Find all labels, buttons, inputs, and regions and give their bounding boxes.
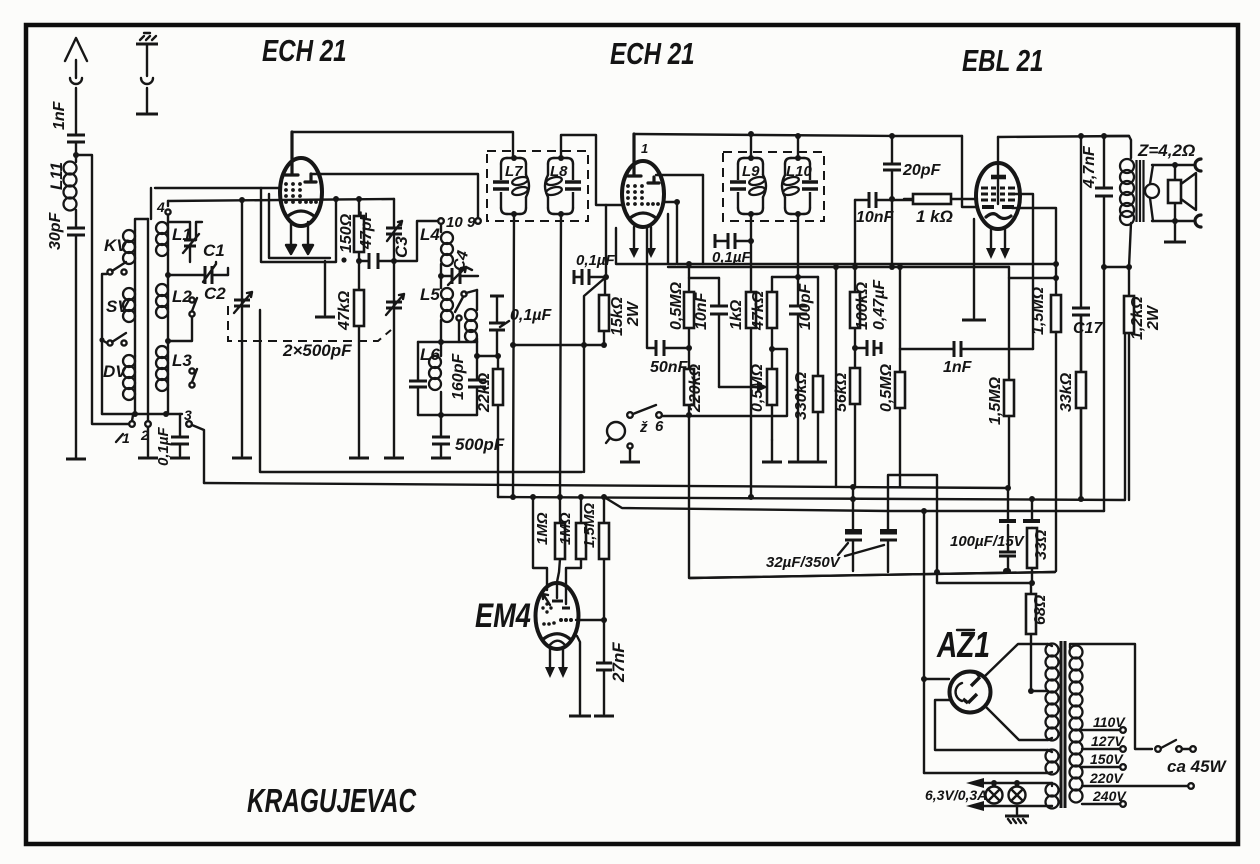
switch contact L2 bbox=[168, 297, 197, 341]
wire EBL plate bbox=[1012, 208, 1056, 295]
svg-text:56kΩ: 56kΩ bbox=[833, 372, 850, 412]
capacitor 27nF bbox=[596, 620, 628, 714]
svg-text:0,1µF: 0,1µF bbox=[576, 252, 615, 269]
power transformer HV winding bbox=[1046, 644, 1059, 741]
capacitor 1nF bbox=[900, 341, 1033, 376]
bus ground lower bbox=[690, 572, 1055, 578]
wire long loop down bbox=[689, 415, 1055, 578]
svg-text:1,2kΩ: 1,2kΩ bbox=[1129, 296, 1146, 340]
bus second lower bbox=[937, 582, 1032, 584]
speaker bbox=[1152, 159, 1201, 227]
svg-text:ž: ž bbox=[639, 419, 648, 436]
svg-text:L7: L7 bbox=[505, 163, 523, 180]
resistor 47kΩ (IF) bbox=[750, 277, 777, 369]
svg-text:1: 1 bbox=[641, 141, 648, 156]
svg-text:150Ω: 150Ω bbox=[338, 213, 355, 253]
ground (C3 line) bbox=[384, 457, 404, 460]
wire L7 bottom down to bus bbox=[513, 214, 514, 497]
wire 20pF node down bbox=[891, 199, 893, 267]
coil L11 bbox=[47, 155, 77, 227]
svg-text:240V: 240V bbox=[1092, 788, 1127, 804]
svg-text:1 kΩ: 1 kΩ bbox=[916, 207, 953, 226]
svg-text:C1: C1 bbox=[203, 241, 225, 260]
resistor 47kΩ bbox=[336, 261, 364, 456]
svg-text:10nF: 10nF bbox=[856, 209, 895, 226]
wire AZ1 anode top bbox=[985, 644, 1048, 676]
wire triode anode tube2 bbox=[656, 174, 703, 176]
tube EBL21 bbox=[976, 137, 1020, 229]
IF transformer dashed box L7 L8 bbox=[487, 151, 588, 221]
wire mid node bbox=[719, 386, 758, 388]
capacitor 0,1µF (AGC to 15k) bbox=[574, 205, 615, 472]
resistor 33kΩ bbox=[1058, 315, 1086, 497]
bus B+ upper bbox=[604, 497, 1104, 511]
trimmer C3 bbox=[386, 199, 411, 456]
resistor 1MΩ #1 bbox=[534, 497, 565, 598]
ground (100pF) bbox=[788, 461, 808, 464]
node L2/L3 junction bbox=[165, 338, 171, 344]
capacitor 0,1µF (osc pad) bbox=[489, 296, 552, 356]
svg-text:KRAGUJEVAC: KRAGUJEVAC bbox=[247, 784, 417, 820]
pin 1 bbox=[116, 415, 135, 446]
svg-text:2W: 2W bbox=[1145, 304, 1162, 331]
switch contact SV/DV bbox=[99, 333, 126, 414]
trimmer C2 bbox=[168, 262, 228, 303]
svg-text:68Ω: 68Ω bbox=[1032, 594, 1049, 625]
svg-text:27nF: 27nF bbox=[609, 642, 628, 683]
wire AVC line bbox=[513, 344, 604, 346]
capacitor 160pF bbox=[450, 353, 486, 415]
node 47pF/C3 bbox=[391, 258, 397, 264]
coil L4 bbox=[420, 224, 453, 276]
wire 4,7nF to transformer bbox=[1104, 266, 1129, 268]
wire L9 bottom down bbox=[750, 214, 752, 292]
svg-text:C3: C3 bbox=[392, 236, 411, 258]
svg-text:0,5MΩ: 0,5MΩ bbox=[749, 363, 766, 412]
wire grid line tube1 bbox=[168, 199, 394, 201]
svg-text:110V: 110V bbox=[1093, 714, 1126, 730]
capacitor 0,47µF bbox=[852, 279, 888, 356]
svg-text:1MΩ: 1MΩ bbox=[534, 512, 551, 545]
IF transformer dashed box L9 L10 bbox=[723, 152, 824, 221]
pin 3 bbox=[184, 407, 204, 483]
pin 10 bbox=[438, 214, 463, 231]
capacitor 50nF bbox=[647, 226, 689, 376]
tap 110V bbox=[1082, 714, 1126, 733]
capacitor 0,1µF (IF bypass) bbox=[712, 233, 754, 266]
svg-text:0,47µF: 0,47µF bbox=[871, 279, 888, 330]
svg-text:100kΩ: 100kΩ bbox=[854, 281, 871, 330]
resistor 0,5MΩ (2nd) bbox=[749, 363, 777, 440]
coil feedback bbox=[465, 290, 477, 342]
svg-text:1MΩ: 1MΩ bbox=[557, 512, 574, 545]
wire AF line bbox=[677, 202, 703, 264]
resistor 0,5MΩ (IF) bbox=[668, 261, 694, 348]
svg-text:0,1µF: 0,1µF bbox=[155, 427, 172, 466]
svg-text:100µF/15V: 100µF/15V bbox=[950, 533, 1026, 550]
trimmer C4 bbox=[441, 249, 478, 285]
power transformer primary bbox=[1070, 644, 1153, 803]
capacitor 10nF (AF) bbox=[855, 192, 913, 226]
svg-text:22kΩ: 22kΩ bbox=[476, 372, 493, 413]
svg-text:150V: 150V bbox=[1090, 751, 1124, 767]
coil L8 cell bbox=[545, 155, 581, 217]
svg-text:EM4: EM4 bbox=[475, 596, 531, 635]
transformer core (power) bbox=[1061, 641, 1065, 808]
wire avc return bbox=[835, 267, 837, 487]
coil L1 cell bbox=[156, 199, 192, 275]
svg-text:6,3V/0,3A: 6,3V/0,3A bbox=[925, 787, 987, 803]
capacitor 500pF bbox=[432, 415, 505, 456]
svg-text:47pF: 47pF bbox=[358, 210, 375, 250]
resistor 22kΩ bbox=[476, 356, 503, 497]
wire heptode anode tube2 bbox=[664, 201, 677, 203]
wire C3 node to pin10 bbox=[394, 221, 438, 261]
wire AZ1 heater return bbox=[935, 700, 1048, 750]
ground (heater) bbox=[1005, 806, 1029, 823]
coil L10 cell bbox=[782, 155, 818, 217]
pickup jack circle bbox=[606, 422, 625, 443]
label AZ1 bbox=[936, 625, 990, 665]
svg-text:47kΩ: 47kΩ bbox=[750, 290, 767, 331]
capacitor 32µF/350V #1 bbox=[845, 484, 862, 571]
wire AZ1 left pin bbox=[924, 678, 949, 680]
wire tube2 top to B+ bbox=[634, 134, 962, 136]
wire L8 top to tube2 grid bbox=[561, 135, 623, 205]
coil DV bbox=[103, 355, 135, 414]
coil L2 bbox=[156, 275, 192, 341]
switch contact KV/SV bbox=[102, 262, 127, 340]
svg-text:L2: L2 bbox=[172, 287, 192, 306]
variable capacitor 2x500pF section1 bbox=[234, 200, 252, 456]
node bus dots bbox=[510, 494, 516, 500]
wire EM4 target bbox=[576, 619, 604, 621]
resistor 68Ω bbox=[1026, 583, 1049, 691]
svg-text:L4: L4 bbox=[420, 225, 440, 244]
switch contact L3 bbox=[189, 368, 197, 387]
resistor 150Ω bbox=[338, 199, 364, 261]
wire L3 bottom bbox=[135, 413, 182, 415]
wire 68 to center tap bbox=[1031, 690, 1048, 692]
svg-text:2W: 2W bbox=[625, 300, 642, 327]
svg-text:20pF: 20pF bbox=[902, 162, 942, 179]
switch Z6 bbox=[627, 349, 787, 436]
capacitor 1nF bbox=[51, 100, 85, 154]
resistor 1,2kΩ 2W bbox=[1124, 267, 1162, 500]
pin 9 bbox=[467, 214, 481, 231]
node 15k bottom bbox=[601, 342, 607, 348]
svg-text:1nF: 1nF bbox=[943, 359, 973, 376]
svg-text:1,5MΩ: 1,5MΩ bbox=[581, 503, 598, 548]
output transformer primary bbox=[1104, 136, 1134, 267]
coil L5 bbox=[420, 276, 453, 342]
wire AZ1 anode bottom bbox=[985, 706, 1048, 740]
ink mark bbox=[341, 257, 346, 262]
resistor 1,5MΩ (EM4) bbox=[581, 497, 609, 620]
svg-text:33Ω: 33Ω bbox=[1033, 529, 1050, 560]
svg-text:EBL 21: EBL 21 bbox=[962, 43, 1043, 78]
wire step bbox=[888, 475, 937, 583]
cathode arrows tube2 bbox=[629, 227, 656, 258]
svg-text:1,5MΩ: 1,5MΩ bbox=[987, 376, 1004, 425]
svg-text:220kΩ: 220kΩ bbox=[687, 363, 704, 413]
resistor 15kΩ 2W bbox=[599, 277, 642, 345]
capacitor 20pF bbox=[883, 133, 942, 199]
capacitor 30pF bbox=[47, 211, 86, 459]
node 150 bottom bbox=[356, 258, 362, 264]
pin 2 bbox=[140, 219, 151, 443]
node L4/C4 bbox=[438, 273, 444, 279]
ground (speaker) bbox=[1164, 221, 1186, 242]
svg-text:L5: L5 bbox=[420, 285, 440, 304]
coil L3 bbox=[156, 341, 192, 414]
capacitor 4,7nF bbox=[1081, 133, 1113, 267]
band switch bank rectangle bbox=[135, 188, 151, 230]
svg-text:Z=4,2Ω: Z=4,2Ω bbox=[1137, 141, 1195, 160]
label 32µF/350V bbox=[766, 543, 884, 571]
svg-text:10nF: 10nF bbox=[693, 291, 710, 330]
tap 150V bbox=[1082, 751, 1126, 770]
wire L6 bottom bbox=[418, 414, 477, 416]
wire L8 bottom to AVC bus bbox=[560, 214, 561, 497]
svg-text:1nF: 1nF bbox=[51, 100, 68, 130]
svg-text:ECH 21: ECH 21 bbox=[262, 33, 347, 68]
svg-text:30pF: 30pF bbox=[47, 211, 64, 250]
svg-text:160pF: 160pF bbox=[450, 353, 467, 400]
resistor 1kΩ bbox=[728, 292, 756, 497]
wire EM4 grid feed bbox=[533, 497, 547, 590]
svg-text:15kΩ: 15kΩ bbox=[609, 296, 626, 336]
tap 240V bbox=[1082, 788, 1127, 807]
tap 220V bbox=[1082, 770, 1194, 789]
svg-text:4: 4 bbox=[156, 199, 165, 215]
variable capacitor 2x500pF section2 bbox=[386, 294, 404, 315]
svg-text:1,5MΩ: 1,5MΩ bbox=[1030, 286, 1047, 335]
node grid junctions bbox=[239, 197, 245, 203]
svg-text:2×500pF: 2×500pF bbox=[282, 341, 352, 360]
svg-text:6: 6 bbox=[655, 418, 664, 435]
coil SV bbox=[106, 288, 135, 356]
ground (47k) bbox=[349, 457, 369, 460]
resistor 1kΩ (grid stopper) bbox=[904, 194, 977, 226]
power transformer 6,3V winding bbox=[1046, 783, 1059, 809]
svg-text:33kΩ: 33kΩ bbox=[1058, 372, 1075, 412]
svg-text:ECH 21: ECH 21 bbox=[610, 36, 695, 71]
svg-text:L9: L9 bbox=[742, 163, 760, 180]
bus A bbox=[260, 310, 582, 472]
switch contact oscillator bbox=[455, 290, 477, 342]
node L1/L2 junction bbox=[165, 272, 171, 278]
wire rectifier B+ bbox=[923, 511, 925, 773]
svg-text:100pF: 100pF bbox=[797, 283, 814, 330]
bus C bbox=[498, 332, 1125, 500]
svg-text:C17: C17 bbox=[1073, 320, 1103, 337]
svg-text:0,1µF: 0,1µF bbox=[712, 249, 751, 266]
svg-text:1kΩ: 1kΩ bbox=[728, 299, 745, 330]
ground (varcap1) bbox=[232, 457, 252, 460]
transformer core bbox=[1137, 160, 1144, 222]
wire anode top to L7 bbox=[292, 132, 513, 158]
svg-text:0,1µF: 0,1µF bbox=[510, 307, 552, 324]
cathode box tube2 bbox=[616, 214, 676, 264]
wire to 22k bbox=[477, 355, 498, 357]
dashed box 2x500pF bbox=[228, 306, 391, 360]
svg-text:C2: C2 bbox=[204, 284, 226, 303]
resistor 1MΩ #2 bbox=[557, 497, 586, 604]
tap 127V bbox=[1082, 733, 1126, 752]
ground (EBL21 cathode) bbox=[962, 219, 986, 320]
tube EM4 bbox=[536, 583, 579, 649]
svg-text:L6: L6 bbox=[420, 345, 440, 364]
antenna bbox=[65, 38, 87, 133]
resistor 330kΩ bbox=[793, 277, 823, 460]
resistor 0,5MΩ (EBL grid) bbox=[878, 264, 905, 487]
wire fb line bbox=[1009, 267, 1056, 278]
svg-text:10: 10 bbox=[446, 214, 463, 231]
cathode arrows EBL21 bbox=[986, 229, 1010, 259]
svg-text:L8: L8 bbox=[550, 163, 568, 180]
tube AZ1 bbox=[950, 672, 991, 713]
ground (500pF) bbox=[431, 457, 451, 460]
capacitor 100pF bbox=[789, 277, 814, 460]
resistor 33Ω bbox=[1023, 499, 1050, 583]
capacitor 0,1µF (cathode) bbox=[155, 414, 190, 466]
resistor 56kΩ bbox=[833, 368, 860, 486]
mains switch bbox=[1155, 740, 1196, 752]
wire L10 top feed bbox=[797, 136, 799, 158]
capacitor L6 cell bbox=[409, 381, 427, 387]
bus B bbox=[204, 483, 1008, 488]
wire triode anode to pin9 bbox=[311, 174, 478, 218]
svg-text:4,7nF: 4,7nF bbox=[1081, 145, 1098, 189]
capacitor 100µF/15V bbox=[950, 485, 1026, 571]
resistor 100kΩ bbox=[850, 200, 871, 368]
svg-text:47kΩ: 47kΩ bbox=[336, 290, 353, 331]
svg-text:127V: 127V bbox=[1091, 733, 1125, 749]
cathode arrows EM4 bbox=[545, 649, 568, 678]
capacitor C17 bbox=[1072, 133, 1103, 497]
tube ECH21 #1 bbox=[280, 132, 322, 226]
coil L6 cell bbox=[418, 342, 441, 415]
wire osc bottom bbox=[418, 341, 477, 343]
capacitor 32µF/350V #2 bbox=[880, 511, 897, 572]
coil KV bbox=[104, 230, 135, 290]
ground (top) bbox=[136, 33, 158, 114]
wire resistor bank top bbox=[689, 277, 719, 279]
coil L7 cell bbox=[493, 155, 529, 217]
svg-text:32µF/350V: 32µF/350V bbox=[766, 554, 842, 571]
capacitor 10nF bbox=[693, 278, 728, 387]
ground (330k) bbox=[807, 461, 827, 464]
ground (tube1 cathode) bbox=[324, 261, 326, 315]
node antenna junction bbox=[73, 152, 79, 158]
node 10nF/1k bbox=[889, 196, 895, 202]
terminal below bbox=[620, 443, 640, 462]
wire triode grid tube1 bbox=[155, 187, 280, 189]
tube ECH21 #2 bbox=[622, 134, 664, 227]
resistor 220kΩ bbox=[684, 348, 704, 415]
ground (switch bank) bbox=[147, 427, 149, 456]
resistor 1,5MΩ #1 bbox=[1030, 286, 1061, 571]
ground (0,5M) bbox=[762, 461, 782, 464]
svg-text:ca 45W: ca 45W bbox=[1167, 757, 1228, 776]
wire L9 top feed bbox=[750, 134, 752, 158]
svg-text:L11: L11 bbox=[47, 162, 66, 190]
capacitor 47pF bbox=[358, 210, 394, 269]
node 0,5M/220k bbox=[686, 345, 692, 351]
ground (27nF) bbox=[594, 715, 614, 718]
resistor 1,5MΩ #2 bbox=[987, 376, 1014, 488]
ground (EM4 cathode) bbox=[577, 636, 580, 714]
node feedback bottom bbox=[476, 342, 478, 356]
svg-text:330kΩ: 330kΩ bbox=[793, 371, 810, 420]
wire L10 bottom down bbox=[797, 214, 799, 276]
trimmer C1 bbox=[168, 222, 225, 262]
svg-text:0,5MΩ: 0,5MΩ bbox=[878, 363, 895, 412]
svg-text:0,5MΩ: 0,5MΩ bbox=[668, 281, 685, 330]
output transformer secondary bbox=[1145, 165, 1159, 221]
pilot lamps 6,3V bbox=[925, 778, 1052, 811]
coil L9 cell bbox=[730, 155, 766, 217]
svg-text:3: 3 bbox=[184, 407, 192, 423]
svg-text:220V: 220V bbox=[1089, 770, 1124, 786]
wire antenna to switch bank bbox=[76, 155, 129, 424]
wire switch common bottom bbox=[102, 413, 135, 415]
wire EBL screen bbox=[1014, 194, 1033, 349]
power transformer rectifier filament winding bbox=[924, 750, 1059, 775]
node switch to loop bbox=[686, 412, 692, 418]
cathode box tube1 bbox=[261, 188, 336, 262]
svg-text:L3: L3 bbox=[172, 351, 192, 370]
svg-text:L10: L10 bbox=[786, 163, 813, 180]
svg-text:1: 1 bbox=[122, 430, 130, 446]
